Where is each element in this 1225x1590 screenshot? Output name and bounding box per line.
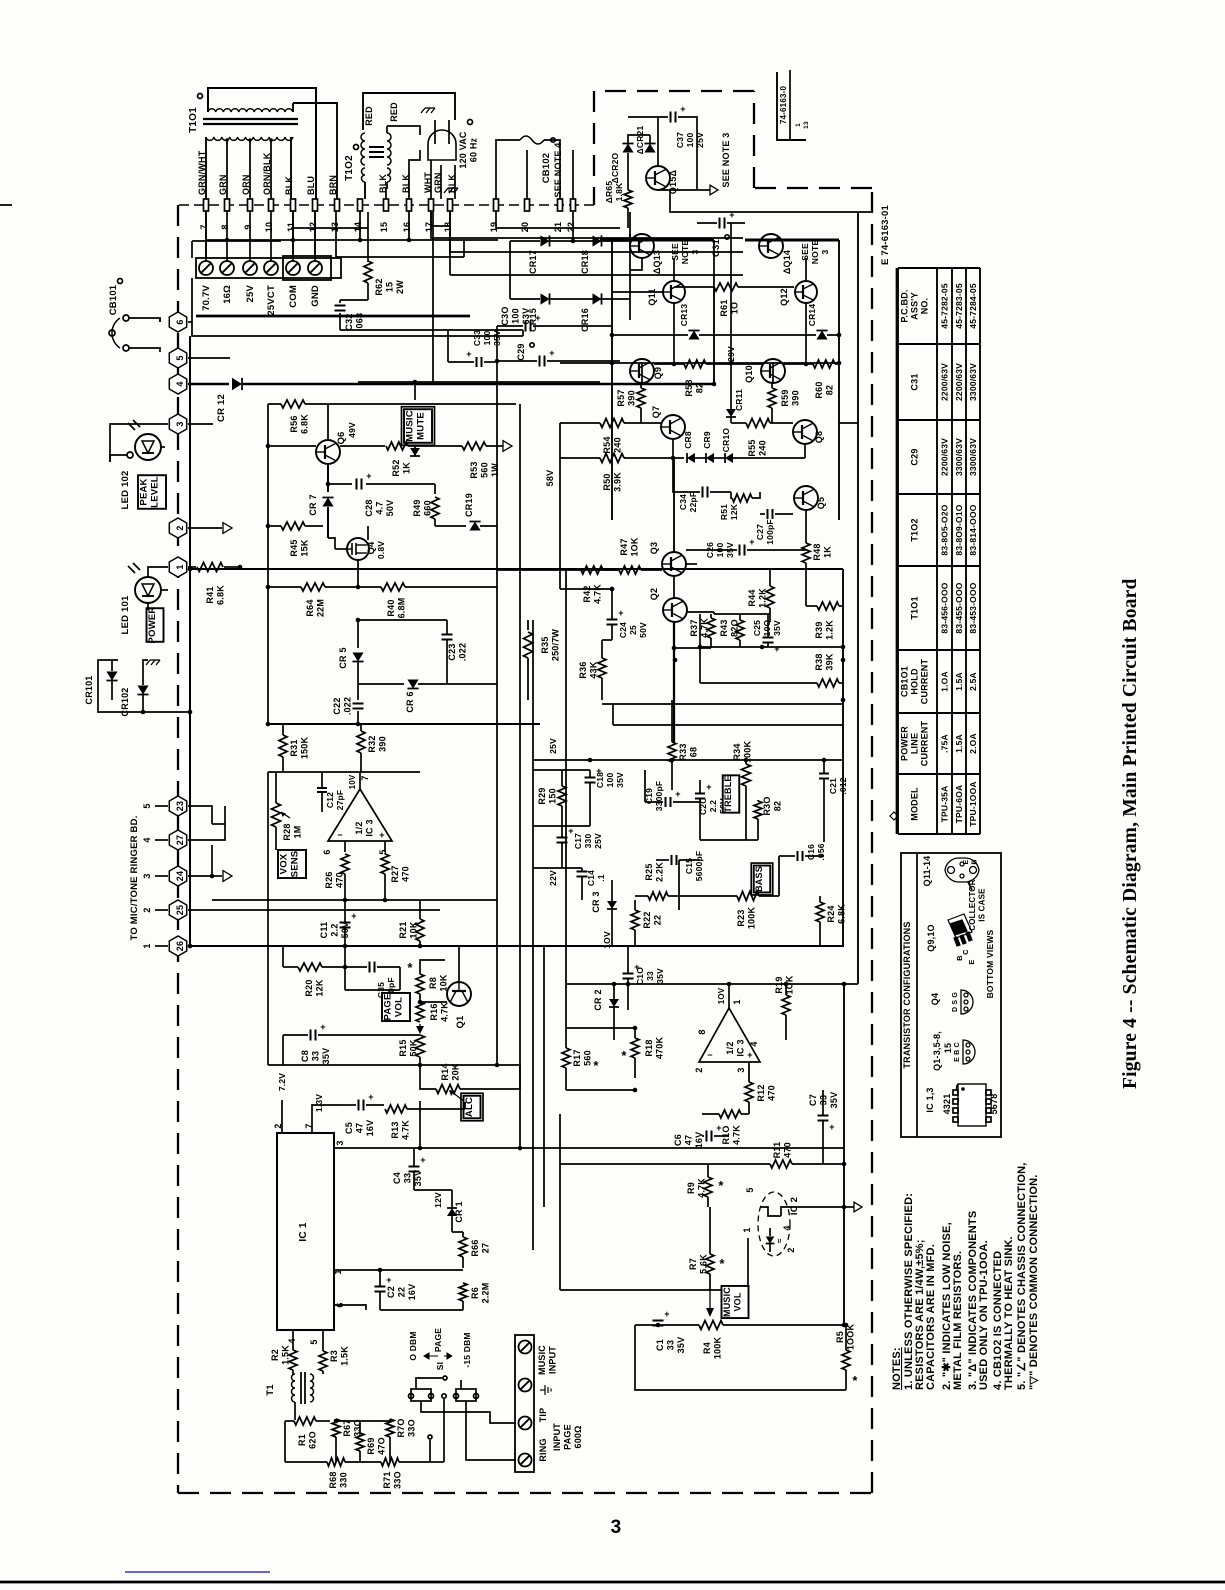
svg-text:R391.2K: R391.2K (814, 620, 835, 640)
74-6163-0 top-right stamp (777, 72, 806, 140)
varistor CR102 (137, 686, 148, 695)
chassis ground at plug (421, 108, 435, 113)
svg-text:1.5A: 1.5A (954, 734, 964, 753)
svg-text:+: + (680, 104, 685, 114)
svg-text:R441.2K: R441.2K (747, 588, 768, 608)
svg-text:Q12: Q12 (779, 288, 789, 306)
svg-text:Q9,1O: Q9,1O (926, 924, 936, 952)
wires terminal area (192, 240, 281, 242)
svg-text:25V: 25V (245, 285, 256, 303)
resistor R64 22M (268, 586, 301, 588)
svg-text:−: − (707, 1050, 712, 1060)
svg-text:+: + (749, 537, 754, 547)
svg-text:+: + (706, 782, 711, 792)
parts selection table (897, 268, 899, 834)
svg-text:Figure 4 -- Schematic Diagram,: Figure 4 -- Schematic Diagram, Main Prin… (1120, 578, 1141, 1089)
svg-text:C284.750V: C284.750V (364, 499, 395, 516)
svg-text:R23100K: R23100K (736, 907, 757, 930)
vertical bus x844 (843, 984, 845, 1325)
vertical common bus x190 (189, 336, 191, 946)
resistor R56 6.8K (268, 403, 281, 405)
bus y240 under pins (206, 239, 498, 241)
wire bus y724 (268, 723, 540, 725)
resistor R68 330 (327, 1458, 345, 1466)
svg-text:2200/63V: 2200/63V (954, 363, 964, 401)
svg-text:20: 20 (520, 222, 530, 232)
svg-text:ΔQ14: ΔQ14 (782, 250, 792, 274)
wire hex5 right (188, 357, 230, 359)
svg-text:12V: 12V (433, 1192, 443, 1208)
potentiometer R23 100K (737, 892, 759, 901)
svg-text:23: 23 (175, 801, 185, 811)
capacitor C26 100 35V (739, 545, 741, 556)
svg-text:PAGEVOL: PAGEVOL (383, 993, 405, 1020)
svg-text:+: + (535, 313, 540, 323)
resistor R27 470 (384, 841, 386, 852)
svg-text:NOTES:: NOTES: (891, 1347, 903, 1390)
left margin tick (0, 204, 12, 206)
svg-text:R3643K: R3643K (578, 661, 599, 678)
svg-text:+: + (351, 911, 356, 921)
wire hex3 (161, 446, 165, 448)
svg-text:0.8V: 0.8V (376, 541, 386, 559)
vertical bus x858 (857, 212, 859, 984)
svg-text:*: * (718, 1178, 724, 1193)
svg-text:C: C (961, 949, 970, 955)
label BASS (754, 866, 771, 893)
resistor R38 39K (817, 679, 839, 687)
svg-text:USED ONLY ON TPU-1OOA.: USED ONLY ON TPU-1OOA. (978, 1240, 990, 1390)
svg-text:ORN/BLK: ORN/BLK (262, 152, 272, 195)
feedback wires opamp2 (566, 1027, 635, 1029)
svg-text:R7O33O: R7O33O (396, 1418, 417, 1437)
capacitor C23 .022 (358, 619, 447, 621)
resistor R30 82 (754, 801, 762, 819)
capacitor C17 330 25V (557, 837, 568, 839)
resistor R67 330 (332, 1419, 340, 1437)
svg-text:CR1O: CR1O (721, 428, 731, 453)
resistor R39 1.2K (817, 602, 839, 610)
svg-text:R416.8K: R416.8K (205, 585, 226, 605)
svg-text:CR101: CR101 (84, 675, 94, 704)
svg-text:ΔCR2O: ΔCR2O (610, 152, 620, 183)
svg-text:TPU-6OA: TPU-6OA (954, 785, 964, 824)
svg-text:TPU-1OOA: TPU-1OOA (968, 781, 978, 827)
svg-text:MUSICINPUT: MUSICINPUT (537, 1345, 558, 1375)
svg-text:*: * (852, 1373, 858, 1388)
svg-text:7: 7 (199, 224, 209, 229)
wire down to R4 (709, 1290, 711, 1313)
svg-text:+: + (618, 608, 623, 618)
vertical bus x843 upper (842, 569, 844, 946)
svg-text:3300/63V: 3300/63V (954, 438, 964, 476)
svg-text:BRN: BRN (328, 175, 338, 195)
svg-text:1.OA: 1.OA (940, 671, 950, 692)
svg-text:83-456-OOO: 83-456-OOO (940, 582, 950, 633)
svg-text:+: + (466, 349, 471, 359)
svg-text:CR13: CR13 (679, 304, 689, 327)
svg-text:R6422M: R6422M (305, 599, 326, 617)
svg-text:R611O: R611O (719, 299, 740, 316)
svg-text:2: 2 (142, 907, 152, 912)
svg-text:T1O2: T1O2 (910, 518, 920, 541)
resistor R12 470 (745, 1082, 753, 1102)
svg-text:.75A: .75A (940, 734, 950, 753)
resistor R54 240 (600, 419, 624, 428)
svg-text:4: 4 (142, 837, 152, 842)
capacitor C20 2.2 50V (695, 793, 705, 795)
wires driver (602, 639, 612, 641)
svg-text:7: 7 (360, 775, 370, 780)
bus y984 (566, 983, 858, 985)
PCB board dashed border (177, 205, 179, 1493)
resistor R31 150K (279, 735, 287, 757)
svg-text:CR14: CR14 (807, 304, 817, 327)
svg-text:3: 3 (175, 421, 185, 426)
svg-text:+: + (368, 1092, 373, 1102)
svg-text:Q6: Q6 (336, 431, 347, 444)
capacitor C16 .056 (797, 851, 799, 861)
resistor R2 1.5K (289, 1350, 297, 1370)
svg-text:BLK: BLK (284, 176, 294, 195)
svg-text:1.5A: 1.5A (954, 672, 964, 691)
svg-text:Q8: Q8 (814, 431, 824, 443)
bus y363 (560, 362, 839, 364)
svg-text:SI: SI (435, 1362, 445, 1370)
bus y760 (533, 759, 844, 761)
svg-text:3: 3 (335, 1140, 345, 1145)
svg-text:5: 5 (142, 803, 152, 808)
resistor R43 820 (736, 620, 744, 640)
resistor R47 10K (619, 566, 641, 574)
svg-text:*: * (621, 1048, 627, 1063)
svg-text:+: + (716, 1123, 721, 1133)
resistor R71 330 (381, 1458, 399, 1466)
wire IC1 pin2 to top (281, 1100, 283, 1133)
svg-text:83-453-OOO: 83-453-OOO (968, 582, 978, 633)
hex pin 25 (169, 900, 186, 920)
svg-text:13: 13 (330, 222, 340, 232)
capacitor C32 .068 (335, 305, 346, 307)
svg-text:2: 2 (175, 525, 185, 530)
wire bus y946 (190, 945, 844, 947)
hex pin 2 (169, 518, 186, 538)
svg-text:+: + (320, 1022, 325, 1032)
bus y570 (497, 569, 618, 571)
svg-text:+: + (420, 1155, 425, 1165)
capacitor C34 22pF with R51 12K (681, 478, 738, 508)
svg-text:C3710025V: C3710025V (675, 132, 705, 148)
svg-text:16: 16 (402, 222, 412, 232)
svg-text:15: 15 (379, 222, 389, 232)
svg-text:R17560: R17560 (572, 1049, 593, 1066)
svg-text:11: 11 (286, 222, 296, 232)
resistor R19 10K (782, 995, 790, 1015)
transistor Q5 (794, 486, 818, 510)
svg-text:+: + (386, 1275, 391, 1285)
svg-text:E B C: E B C (954, 1042, 961, 1062)
resistor R16 4.7K (416, 1002, 424, 1022)
svg-text:SEE NOTE 4: SEE NOTE 4 (553, 142, 563, 197)
transistor Q3 (662, 552, 686, 576)
svg-text:C112.250V: C112.250V (319, 922, 350, 939)
svg-text:+: + (774, 644, 779, 654)
op-amp 1/2 IC3 second (699, 1008, 760, 1062)
heavy supply rail Q13 (600, 239, 714, 242)
resistor R35 250/7W (527, 620, 529, 630)
svg-text:R252.2K: R252.2K (644, 862, 665, 882)
resistor R8 10K (416, 974, 424, 994)
ground symbol at music input (540, 1385, 551, 1395)
svg-text:*: * (407, 960, 413, 975)
bus y1290 (560, 1289, 748, 1291)
svg-text:R5112K: R5112K (719, 503, 739, 520)
resistor R14 wire (419, 1101, 421, 1148)
wire IC1 pin7 (312, 1105, 340, 1133)
svg-text:R59390: R59390 (780, 389, 801, 406)
svg-text:4: 4 (287, 1338, 297, 1343)
verticals power stage (611, 240, 613, 520)
resistor R44 1.2K (766, 586, 774, 608)
wires pins to terminal strip (205, 211, 207, 261)
long bus 58V line (190, 568, 843, 570)
svg-text:R26470: R26470 (324, 871, 345, 888)
svg-text:−: − (337, 830, 342, 840)
svg-text:Q11: Q11 (647, 288, 657, 305)
svg-text:R11470: R11470 (772, 1142, 793, 1159)
capacitor C14 .1 (577, 871, 588, 873)
diode CR2 (609, 999, 619, 1007)
svg-text:24: 24 (175, 871, 185, 881)
wire top bus (358, 381, 600, 383)
svg-text:CR11: CR11 (734, 389, 744, 411)
svg-text:PEAKLEVEL: PEAKLEVEL (139, 476, 161, 508)
svg-text:25: 25 (175, 905, 185, 915)
wires from ringer connector (188, 806, 212, 824)
svg-text:Q7: Q7 (651, 406, 661, 418)
svg-text:GRN/WHT: GRN/WHT (197, 150, 207, 195)
bus y335 (612, 334, 688, 336)
svg-text:5: 5 (175, 355, 185, 360)
capacitor C25 100 35V (763, 637, 774, 639)
resistor R58 82 (684, 360, 706, 368)
svg-text:*: * (719, 1256, 725, 1271)
diode CR15 (541, 293, 550, 304)
transistor Q7 (661, 415, 685, 439)
capacitor C24 25 50V (607, 619, 618, 621)
wire bus y772 (268, 771, 420, 773)
svg-text:2: 2 (786, 1247, 796, 1252)
potentiometer R28 1M (272, 803, 281, 827)
svg-text:IC 1: IC 1 (298, 1222, 309, 1241)
resistor R66 27 (459, 1237, 467, 1257)
switch contacts S1 (411, 1389, 431, 1401)
resistor R57 390 (637, 388, 645, 408)
resistor R22 22 (631, 910, 639, 930)
label MUSIC MUTE (404, 409, 432, 443)
svg-text:"▽" DENOTES COMMON CONNECTION.: "▽" DENOTES COMMON CONNECTION. (1028, 1174, 1040, 1390)
arrow output right (854, 1202, 862, 1212)
transformer T101 (208, 88, 316, 199)
svg-text:8: 8 (220, 224, 230, 229)
transistor Q10 (761, 359, 785, 383)
transistor Q12 (795, 281, 817, 303)
svg-text:CB102: CB102 (541, 153, 552, 184)
svg-text:49V: 49V (347, 422, 357, 438)
svg-text:21: 21 (553, 222, 563, 232)
hex pin 1 (169, 557, 186, 577)
svg-text:22V: 22V (548, 870, 558, 886)
capacitor C11 2.2 50V (340, 922, 351, 924)
capacitor C27 100pF (767, 509, 769, 519)
capacitor C29 (539, 356, 541, 367)
svg-text:1.3V: 1.3V (314, 1094, 324, 1112)
svg-text:R4515K: R4515K (289, 539, 310, 556)
svg-text:POWER: POWER (147, 607, 158, 644)
svg-text:GND: GND (310, 285, 321, 307)
resistor R62 15 2W (367, 212, 369, 262)
svg-text:Q10: Q10 (744, 365, 754, 383)
svg-text:58V: 58V (545, 470, 555, 487)
svg-text:R1O4.7K: R1O4.7K (721, 1125, 742, 1145)
capacitor C22 .022 (353, 703, 364, 705)
svg-text:C23.022: C23.022 (447, 643, 468, 661)
wire IC1 pin3 bus (334, 1147, 844, 1149)
svg-text:METAL FILM RESISTORS.: METAL FILM RESISTORS. (952, 1251, 964, 1390)
svg-text:EB: EB (963, 859, 979, 864)
svg-text:R6947O: R6947O (366, 1437, 387, 1455)
resistor R52 1K (340, 445, 385, 447)
svg-text:C3422pF: C3422pF (678, 492, 698, 513)
svg-text:D S G: D S G (952, 992, 959, 1012)
svg-text:2: 2 (694, 1067, 704, 1072)
svg-text:R34100K: R34100K (732, 741, 753, 764)
svg-text:12: 12 (308, 222, 318, 232)
svg-text:2.OA: 2.OA (968, 733, 978, 754)
resistor R42 4.7K (581, 566, 603, 574)
svg-text:R12470: R12470 (756, 1084, 777, 1101)
resistor R48 1K (802, 543, 810, 563)
resistor R59 390 (768, 388, 776, 408)
svg-text:RED: RED (389, 102, 399, 122)
transistor Q14 (759, 234, 783, 258)
svg-text:C2610035V: C2610035V (705, 542, 735, 558)
resistor R60 82 (813, 360, 835, 368)
svg-text:BOTTOM VIEWS: BOTTOM VIEWS (985, 929, 995, 998)
svg-text:T1O1: T1O1 (910, 596, 920, 619)
capacitor C21 .012 (819, 773, 829, 775)
svg-text:8: 8 (697, 1029, 707, 1034)
svg-text:15: 15 (943, 1043, 953, 1053)
capacitor C8 33 35V (310, 1030, 312, 1041)
svg-text:CR9: CR9 (702, 431, 712, 449)
chassis ground CR102 (146, 660, 160, 665)
svg-text:*: * (593, 1058, 599, 1073)
capacitor C5 47 16V (358, 1100, 360, 1111)
hex pin 3 (169, 414, 186, 434)
op-amp 1/2 IC3 first (328, 789, 392, 841)
diode at MUSIC MUTE input (410, 448, 420, 456)
svg-text:ΔCR21: ΔCR21 (635, 126, 645, 155)
C19 feed vertical (644, 770, 646, 802)
resistor R61 10 (714, 283, 738, 291)
diode CR19 (435, 525, 466, 527)
svg-text:C16.056: C16.056 (806, 843, 826, 860)
potentiometer R15 50K (419, 1024, 421, 1030)
diode CR5 (357, 620, 359, 648)
capacitor C6 47 16V (706, 1131, 708, 1142)
potentiometer R34 100K (742, 764, 751, 786)
bus y1164 (560, 1163, 770, 1165)
resistor R21 10K (416, 919, 424, 941)
svg-text:10: 10 (264, 222, 274, 232)
svg-text:3300/63V: 3300/63V (968, 438, 978, 476)
hex pin 5 (169, 348, 186, 368)
svg-text:45-7284-05: 45-7284-05 (968, 283, 978, 329)
wire hex4 to CR12 (188, 383, 229, 386)
circuit breaker CB102 (496, 140, 520, 160)
svg-text:5. "∠" DENOTES CHASSIS CONNECT: 5. "∠" DENOTES CHASSIS CONNECTION, (1016, 1162, 1028, 1390)
bottom page rule (0, 1581, 1225, 1584)
diode CR17 (541, 235, 550, 246)
svg-text:T1O2: T1O2 (344, 155, 355, 181)
transistor Q6 (316, 440, 340, 464)
hex pin 23 (169, 796, 186, 816)
resistor R29 150 (558, 786, 566, 806)
svg-text:2200/63V: 2200/63V (940, 438, 950, 476)
svg-text:7.2V: 7.2V (277, 1073, 287, 1091)
svg-text:R18470K: R18470K (644, 1037, 665, 1060)
svg-text:BLU: BLU (306, 176, 316, 195)
svg-text:1: 1 (142, 943, 152, 948)
transistor Q4 FET (347, 538, 369, 560)
svg-text:5: 5 (745, 1187, 755, 1192)
svg-text:GRN: GRN (218, 174, 228, 195)
bus y725 right (613, 724, 843, 726)
svg-text:C1810035V: C1810035V (595, 772, 625, 788)
svg-text:C1227pF: C1227pF (325, 790, 345, 811)
resistor R6 2.2M (459, 1283, 467, 1301)
diode CR6 (358, 683, 404, 685)
resistor R69 470 (356, 1433, 364, 1451)
resistor R53 560 1W (462, 442, 486, 450)
resistor R9 4.7K (704, 1177, 712, 1197)
svg-text:Q2: Q2 (649, 588, 659, 600)
svg-text:R4382O: R4382O (719, 619, 740, 637)
capacitor C10 33 35V (623, 973, 634, 975)
resistor R13 4.7K (385, 1105, 407, 1113)
svg-text:83-8O5-O2O: 83-8O5-O2O (940, 504, 950, 555)
svg-text:LED 102: LED 102 (120, 471, 131, 510)
zener CR1 (447, 1208, 457, 1216)
optocoupler IC2 (758, 1192, 790, 1256)
AC power plug 120VAC 60Hz (428, 130, 456, 160)
svg-text:VOXSENS: VOXSENS (279, 851, 301, 878)
capacitor C2 22 16V (375, 1286, 386, 1288)
svg-text:CR19: CR19 (464, 493, 474, 517)
svg-text:R566.8K: R566.8K (289, 414, 310, 434)
svg-text:SEE NOTE 3: SEE NOTE 3 (721, 132, 731, 187)
diodes CR8 CR9 CR10 (687, 453, 695, 463)
svg-text:CR 7: CR 7 (308, 494, 318, 515)
svg-text:10V: 10V (348, 774, 357, 789)
svg-text:R164.7K: R164.7K (429, 1002, 450, 1022)
svg-text:83-814-OOO: 83-814-OOO (968, 504, 978, 555)
svg-text:BLK: BLK (378, 174, 388, 193)
bottom loop wires (635, 1325, 846, 1390)
svg-text:3300/63V: 3300/63V (968, 363, 978, 401)
wire hex2 arrow (188, 527, 222, 529)
